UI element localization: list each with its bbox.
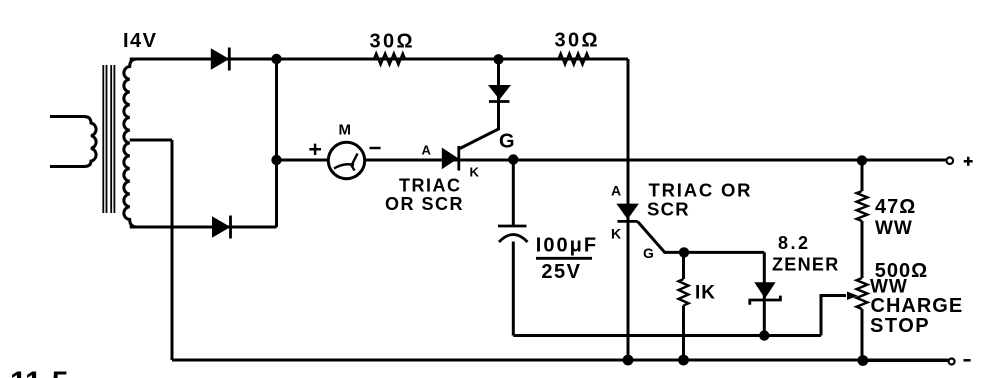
svg-text:TRIAC OR: TRIAC OR bbox=[649, 180, 753, 201]
svg-text:K: K bbox=[611, 226, 621, 242]
svg-text:M: M bbox=[339, 122, 352, 139]
svg-text:G: G bbox=[643, 245, 654, 261]
svg-text:TRIAC: TRIAC bbox=[399, 176, 462, 196]
svg-text:SCR: SCR bbox=[647, 199, 690, 220]
svg-text:I00μF: I00μF bbox=[536, 234, 598, 256]
svg-text:8.2: 8.2 bbox=[778, 233, 811, 253]
svg-text:ZENER: ZENER bbox=[772, 254, 840, 274]
svg-text:A: A bbox=[422, 143, 432, 158]
svg-text:IK: IK bbox=[695, 283, 716, 304]
svg-text:30Ω: 30Ω bbox=[370, 31, 415, 53]
svg-text:OR SCR: OR SCR bbox=[385, 194, 464, 214]
svg-text:11-5: 11-5 bbox=[10, 366, 68, 378]
svg-text:A: A bbox=[611, 183, 621, 199]
svg-text:WW: WW bbox=[875, 218, 913, 239]
svg-text:K: K bbox=[470, 165, 480, 180]
svg-text:G: G bbox=[499, 131, 515, 153]
svg-text:47Ω: 47Ω bbox=[875, 196, 916, 218]
svg-text:30Ω: 30Ω bbox=[555, 30, 600, 52]
svg-text:STOP: STOP bbox=[870, 315, 930, 337]
svg-text:CHARGE: CHARGE bbox=[871, 295, 964, 317]
svg-text:I4V: I4V bbox=[123, 30, 158, 52]
svg-text:25V: 25V bbox=[541, 261, 581, 283]
